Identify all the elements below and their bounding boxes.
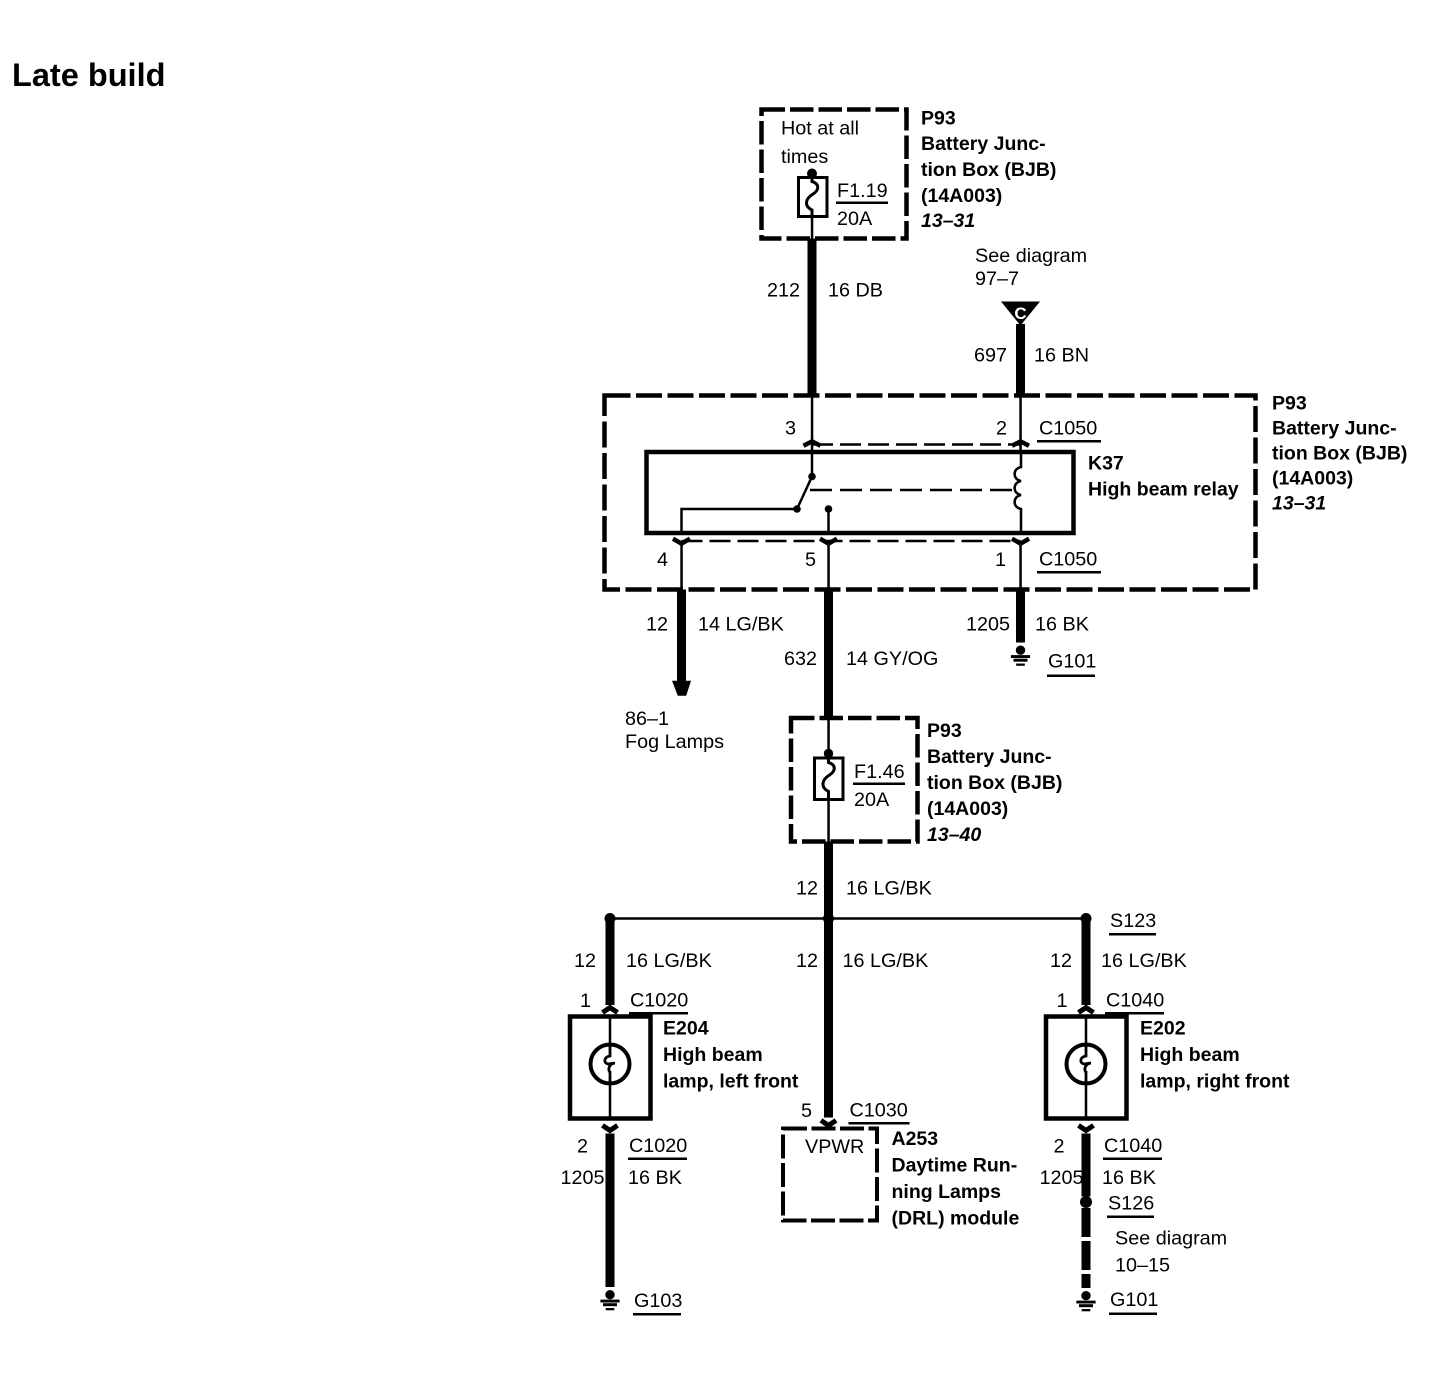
label 212 16 DB [767, 280, 883, 302]
lamp E204 box [570, 1017, 651, 1119]
annotation 86-1 Fog Lamps [625, 708, 724, 753]
fuse F1.46 [815, 758, 844, 800]
wire 212 16 DB (thick) [808, 239, 817, 397]
label 12 14 LG/BK [646, 614, 784, 636]
label 1205 16 BK [966, 614, 1089, 636]
svg-text:C1030: C1030 [850, 1100, 908, 1122]
wire fuse F1.46 to box edge (thin) [827, 800, 830, 842]
svg-text:C1040: C1040 [1104, 1135, 1162, 1157]
label left 12 16 LG/BK [574, 950, 712, 972]
svg-text:See diagram: See diagram [975, 245, 1087, 267]
svg-text:High beam: High beam [1140, 1044, 1240, 1066]
svg-text:A253: A253 [892, 1128, 939, 1150]
svg-text:ning Lamps: ning Lamps [892, 1181, 1002, 1203]
svg-text:G101: G101 [1048, 651, 1096, 673]
annotation A253 Daytime Running Lamps DRL module [892, 1128, 1020, 1230]
svg-text:Battery Junc-: Battery Junc- [1272, 418, 1397, 440]
svg-text:4: 4 [657, 549, 668, 571]
svg-text:Daytime Run-: Daytime Run- [892, 1155, 1018, 1177]
connector C1020 (bottom) label [628, 1135, 687, 1160]
arrow pin5 down [820, 539, 837, 544]
arrow into DRL module down [821, 1120, 836, 1125]
lamp E204 bulb circle [591, 1045, 630, 1084]
wire right branch 12 16 LG/BK (thick) [1082, 919, 1091, 1006]
label right 12 16 LG/BK [1050, 950, 1187, 972]
wire S126 to ground (thick dashed) [1082, 1208, 1091, 1288]
lamp E202 internal wire [1085, 1017, 1088, 1119]
svg-text:13–31: 13–31 [1272, 493, 1326, 515]
wire middle branch 12 16 LG/BK (thick) [824, 919, 833, 1118]
wire 1205 16 BK to ground (thick) [1016, 590, 1025, 643]
annotation K37 High beam relay [1088, 453, 1239, 501]
svg-text:C1050: C1050 [1039, 418, 1097, 440]
label 632 14 GY/OG [784, 648, 938, 670]
annotation P93 Battery Junction Box (top) [921, 108, 1056, 233]
svg-text:16 LG/BK: 16 LG/BK [843, 950, 929, 972]
svg-text:212: 212 [767, 280, 800, 302]
svg-text:Battery Junc-: Battery Junc- [921, 133, 1046, 155]
svg-text:F1.46: F1.46 [854, 761, 905, 783]
label right 1205 16 BK [1039, 1167, 1155, 1189]
svg-text:C1050: C1050 [1039, 549, 1097, 571]
ground G103 [600, 1290, 682, 1316]
wire pin5 to BJB edge (thin) [827, 543, 830, 590]
svg-text:14 LG/BK: 14 LG/BK [698, 614, 784, 636]
wire into fuse F1.46 (thin) [827, 718, 830, 753]
splice S123 label [1109, 910, 1156, 936]
wire left branch 12 16 LG/BK (thick) [606, 919, 615, 1006]
connector C1050 (top) label [1037, 418, 1101, 443]
wire pin2 inside BJB (thin) [1019, 396, 1022, 453]
wire 12 14 LG/BK to fog lamps (thick) [677, 590, 686, 682]
lamp E202 filament [1081, 1046, 1091, 1082]
annotation See diagram 97-7 [975, 245, 1087, 290]
svg-text:E204: E204 [663, 1018, 709, 1040]
connector C1030 label [849, 1100, 910, 1125]
svg-text:12: 12 [574, 950, 596, 972]
svg-text:times: times [781, 146, 828, 168]
svg-text:2: 2 [577, 1136, 588, 1158]
label F1.19 20A [836, 180, 888, 230]
svg-text:16 LG/BK: 16 LG/BK [846, 878, 932, 900]
svg-text:See diagram: See diagram [1115, 1228, 1227, 1250]
svg-text:K37: K37 [1088, 453, 1124, 475]
svg-text:12: 12 [1050, 950, 1072, 972]
svg-text:G103: G103 [634, 1290, 682, 1312]
svg-text:Battery Junc-: Battery Junc- [927, 746, 1052, 768]
label 12 16 LG/BK (below fuse) [796, 878, 932, 900]
svg-text:16 LG/BK: 16 LG/BK [1101, 950, 1187, 972]
lamp E202 box [1046, 1017, 1127, 1119]
wire pin1 to BJB edge (thin) [1019, 543, 1022, 590]
svg-text:tion Box (BJB): tion Box (BJB) [1272, 443, 1407, 465]
node fuse F1.46 top junction dot [824, 749, 833, 758]
fuse F1.19 [799, 178, 828, 218]
svg-text:10–15: 10–15 [1115, 1255, 1170, 1277]
svg-text:16 BK: 16 BK [1035, 614, 1089, 636]
svg-text:(14A003): (14A003) [1272, 468, 1353, 490]
svg-text:C1020: C1020 [629, 1135, 687, 1157]
svg-text:16 LG/BK: 16 LG/BK [626, 950, 712, 972]
module A253 DRL box (dashed) [783, 1129, 877, 1221]
wire right lamp to splice S126 (thick) [1082, 1134, 1091, 1197]
connector C1040 (bottom) label [1103, 1135, 1162, 1160]
arrow to fog lamps [672, 681, 691, 696]
node splice dot middle S123 [823, 913, 834, 924]
lamp E204 internal wire [609, 1017, 612, 1119]
svg-text:1: 1 [995, 549, 1006, 571]
svg-text:86–1: 86–1 [625, 708, 669, 730]
svg-text:Fog Lamps: Fog Lamps [625, 731, 724, 753]
arrow pin3 up [804, 441, 821, 445]
svg-text:3: 3 [785, 418, 796, 440]
label 697 16 BN [974, 345, 1089, 367]
svg-text:High beam relay: High beam relay [1088, 479, 1239, 501]
wire pin4 to BJB edge (thin) [680, 543, 683, 590]
svg-text:VPWR: VPWR [805, 1136, 864, 1158]
wire splice bus (horizontal) [610, 917, 1086, 920]
svg-text:12: 12 [796, 950, 818, 972]
svg-text:lamp, right front: lamp, right front [1140, 1071, 1290, 1093]
fuse box P93 BJB (top, dashed) [762, 110, 907, 239]
node fuse F1.19 top junction dot [807, 169, 817, 179]
box P93 BJB (main, dashed) [605, 396, 1256, 590]
svg-text:13–31: 13–31 [921, 210, 975, 232]
node splice dot right [1081, 913, 1092, 924]
relay switch contact (diagonal) [793, 473, 816, 513]
svg-text:1205: 1205 [966, 614, 1010, 636]
annotation See diagram 10-15 [1115, 1228, 1227, 1277]
relay armature link (dashed) [810, 489, 1017, 492]
svg-text:632: 632 [784, 648, 817, 670]
node splice S126 dot [1080, 1196, 1092, 1208]
svg-text:(14A003): (14A003) [927, 798, 1008, 820]
svg-text:P93: P93 [921, 108, 956, 130]
fuse box P93 BJB (middle, dashed) [791, 718, 918, 842]
svg-text:5: 5 [805, 549, 816, 571]
splice S126 label [1107, 1193, 1154, 1219]
svg-text:lamp, left front: lamp, left front [663, 1071, 799, 1093]
wire fuse F1.19 to box edge (thin) [811, 217, 814, 239]
annotation E202 High beam lamp right front [1140, 1018, 1290, 1093]
svg-text:697: 697 [974, 345, 1007, 367]
svg-text:12: 12 [796, 878, 818, 900]
svg-text:tion Box (BJB): tion Box (BJB) [927, 772, 1062, 794]
lamp E204 filament [605, 1046, 615, 1082]
connector C1050 (bottom) label [1037, 549, 1101, 574]
arrow into left lamp up [603, 1008, 618, 1013]
svg-text:P93: P93 [927, 720, 962, 742]
wire left lamp to ground (thick) [606, 1134, 615, 1288]
annotation P93 Battery Junction Box (middle) [927, 720, 1062, 846]
ground G101 (below BJB) [1011, 646, 1097, 678]
connector line C1050 bottom (dashed) [682, 540, 1021, 543]
relay K37 box [647, 452, 1074, 533]
svg-text:F1.19: F1.19 [837, 180, 888, 202]
label Hot at all times [781, 118, 859, 169]
wire pin3 inside BJB (thin) [811, 396, 814, 453]
svg-text:P93: P93 [1272, 393, 1307, 415]
svg-text:14 GY/OG: 14 GY/OG [846, 648, 938, 670]
connector line C1050 top (dashed) [812, 443, 1021, 446]
svg-text:C1040: C1040 [1106, 990, 1164, 1012]
svg-text:G101: G101 [1110, 1289, 1158, 1311]
svg-text:1205: 1205 [560, 1167, 604, 1189]
svg-text:(DRL) module: (DRL) module [892, 1208, 1020, 1230]
svg-text:High beam: High beam [663, 1044, 763, 1066]
svg-text:(14A003): (14A003) [921, 185, 1002, 207]
svg-text:Hot at all: Hot at all [781, 118, 859, 140]
svg-text:tion Box (BJB): tion Box (BJB) [921, 159, 1056, 181]
wire switch to pin4 [682, 509, 798, 533]
connector C1040 (top) label [1105, 990, 1164, 1015]
label left 1205 16 BK [560, 1167, 681, 1189]
annotation P93 Battery Junction Box (right of box) [1272, 393, 1407, 515]
lamp E202 bulb circle [1067, 1045, 1106, 1084]
relay switch common wire [811, 452, 814, 477]
connector C1020 (top) label [629, 990, 688, 1015]
svg-text:C: C [1014, 304, 1026, 323]
svg-text:16 BK: 16 BK [1102, 1167, 1156, 1189]
svg-text:2: 2 [996, 418, 1007, 440]
svg-text:5: 5 [801, 1100, 812, 1122]
arrow out of right lamp down [1079, 1125, 1094, 1130]
arrow out of left lamp down [603, 1125, 618, 1130]
svg-text:1205: 1205 [1039, 1167, 1083, 1189]
svg-text:20A: 20A [837, 208, 873, 230]
svg-text:12: 12 [646, 614, 668, 636]
svg-text:97–7: 97–7 [975, 268, 1019, 290]
label F1.46 20A [853, 761, 905, 811]
wire 12 16 LG/BK below fuse (thick) [824, 842, 833, 919]
svg-text:S126: S126 [1108, 1193, 1154, 1215]
wire 697 16 BN (thick) [1016, 324, 1025, 396]
arrow pin1 down [1012, 539, 1029, 544]
ground G101 (bottom right) [1076, 1289, 1158, 1315]
connector C (triangle, from other diagram) [1001, 302, 1040, 326]
relay coil [1015, 452, 1021, 533]
svg-text:1: 1 [580, 990, 591, 1012]
svg-text:1: 1 [1056, 990, 1067, 1012]
svg-text:20A: 20A [854, 789, 890, 811]
svg-text:16 BK: 16 BK [628, 1167, 682, 1189]
svg-text:C1020: C1020 [630, 990, 688, 1012]
wire pin5 with contact dot [825, 505, 833, 533]
label middle 12 16 LG/BK [796, 950, 928, 972]
svg-text:Late build: Late build [12, 57, 165, 93]
arrow pin4 down [673, 539, 690, 544]
svg-text:16 DB: 16 DB [828, 280, 883, 302]
arrow into right lamp up [1079, 1008, 1094, 1013]
arrow pin2 up [1012, 441, 1029, 445]
svg-text:E202: E202 [1140, 1018, 1186, 1040]
svg-text:S123: S123 [1110, 910, 1156, 932]
annotation E204 High beam lamp left front [663, 1018, 799, 1093]
wire 632 14 GY/OG (thick) [824, 590, 833, 719]
node splice dot left [605, 913, 616, 924]
svg-text:16 BN: 16 BN [1034, 345, 1089, 367]
svg-text:2: 2 [1053, 1136, 1064, 1158]
svg-text:13–40: 13–40 [927, 824, 981, 846]
